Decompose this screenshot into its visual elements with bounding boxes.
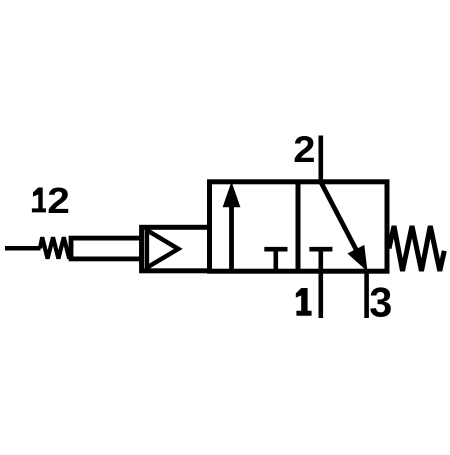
svg-text:2: 2: [47, 181, 70, 221]
svg-text:3: 3: [369, 278, 392, 325]
svg-text:2: 2: [293, 129, 315, 170]
